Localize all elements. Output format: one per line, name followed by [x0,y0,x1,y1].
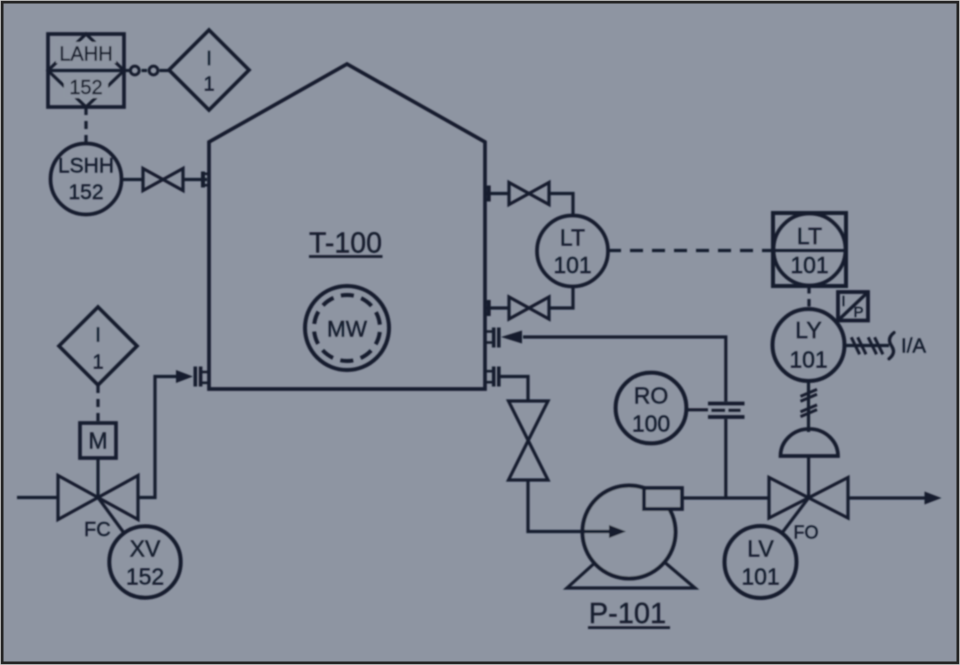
tank outlet nozzle flanges [492,367,496,387]
svg-text:152: 152 [68,181,103,204]
svg-text:RO: RO [634,383,669,409]
tank T-100 [209,64,485,389]
svg-text:P-101: P-101 [589,598,666,630]
svg-text:LAHH: LAHH [59,44,112,66]
I/P converter [838,292,868,321]
discharge pipe [682,496,769,499]
svg-text:XV: XV [130,536,161,562]
interlock diamond I 1 (bottom) [59,307,137,385]
svg-text:101: 101 [553,252,591,278]
svg-text:I: I [841,293,845,310]
valve stem [807,456,810,498]
block valve (bottom tap) [509,297,549,319]
pipe to pump suction [528,480,584,532]
valve XV 152 body [58,476,98,520]
wire nozzle to valve [485,306,509,309]
pneumatic slash marks [851,337,859,354]
nozzle flange (LSHH tap) [201,172,205,188]
pump P-101 casing [583,486,676,579]
block valve (LSHH tap) [143,169,183,191]
tag line valve to LV [782,498,809,533]
svg-text:I: I [95,325,101,347]
svg-text:1: 1 [92,352,103,374]
stem M to valve [96,458,99,498]
svg-text:LSHH: LSHH [58,155,114,178]
tag line valve to XV [98,498,124,534]
feed nozzle flanges [194,367,198,387]
wire link dash [142,69,148,72]
instrument LV 101 [725,526,797,598]
restriction orifice RO 100 [616,373,687,444]
svg-text:LT: LT [560,225,585,251]
svg-text:101: 101 [790,252,828,278]
svg-text:FC: FC [84,519,111,541]
wire valve to LT [549,194,573,216]
recirculation return line [523,337,726,402]
svg-text:I/A: I/A [901,335,926,358]
svg-text:101: 101 [741,564,779,590]
feed line from left [17,496,58,499]
motor actuator M [80,423,116,458]
svg-text:1: 1 [203,74,214,96]
signal interlock to M [96,385,99,423]
wire LAHH to link circle [124,69,130,72]
svg-text:FO: FO [794,523,819,543]
svg-text:100: 100 [632,411,670,437]
top tap nozzle flange [487,186,491,202]
pneumatic slash marks [801,389,818,396]
signal LAHH to LSHH [84,107,87,144]
outlet flow arrow [925,492,942,505]
return nozzle flanges [492,328,496,348]
pneumatic signal LY to actuator [807,381,810,432]
pump P-101 base [567,532,695,588]
wire valve to riser [138,377,178,498]
svg-text:LT: LT [797,223,822,249]
logic box LAHH 152 [48,34,124,107]
control valve LV body [769,478,809,519]
wire LSHH to valve [122,178,144,181]
svg-text:MW: MW [327,317,368,342]
return arrow into tank [501,331,522,344]
interlock diamond I 1 (top) [169,30,249,110]
wire valve to tank [183,178,207,181]
wire link to interlock I1 [160,69,171,72]
shared display LT 101 [773,213,846,286]
svg-text:M: M [88,428,107,454]
instrument XV 152 [109,526,180,597]
wire nozzle to valve [485,192,509,195]
supply break squiggle [889,333,894,359]
outlet pipe [848,496,925,499]
block valve (top tap) [509,183,549,205]
instrument LY 101 [773,309,845,381]
svg-text:152: 152 [69,77,102,99]
agitator MW [305,286,389,370]
svg-text:I: I [206,48,212,70]
instrument LSHH 152 [51,144,122,215]
wire RO to orifice [687,408,708,411]
suction flow arrow [584,530,610,533]
pump discharge nozzle [644,488,682,509]
pneumatic supply line from LY 101 [845,344,890,347]
svg-text:152: 152 [126,564,164,590]
wire orifice down to discharge [724,419,727,498]
outlet pipe to valve [500,377,528,402]
instrument LT 101 [537,216,608,287]
signal LT to shared display [608,249,773,252]
svg-text:LY: LY [795,317,821,343]
flow arrow into tank [176,370,193,383]
wire valve to LT [549,287,573,309]
block valve (vertical) [509,401,549,441]
bottom tap nozzle flange [487,300,491,316]
svg-text:LV: LV [747,536,774,562]
signal LT display to LY [807,286,810,311]
data link circle 1 [130,66,139,75]
svg-text:T-100: T-100 [309,228,382,260]
actuator diaphragm [781,429,839,456]
svg-text:P: P [853,304,863,321]
svg-text:101: 101 [789,347,827,373]
orifice plate [708,402,745,406]
data link circle 2 [149,66,158,75]
